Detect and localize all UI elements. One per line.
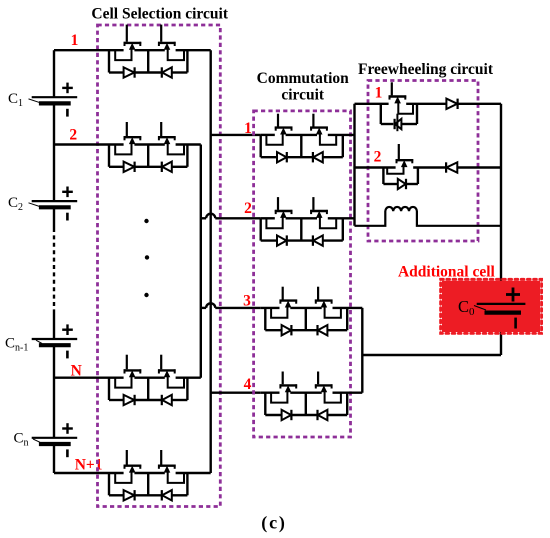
- label Cn-1: [5, 336, 42, 354]
- wire commutation-freewheeling bus: [353, 104, 355, 226]
- svg-text:4: 4: [244, 376, 252, 393]
- wire left battery bus (dashed section): [53, 228, 55, 312]
- node N label: [71, 363, 82, 380]
- title Freewheeling circuit: [358, 61, 494, 78]
- MOSFET pair K3: [261, 287, 363, 336]
- commutation node 4 label: [244, 376, 252, 393]
- caption (c): [261, 513, 286, 534]
- wire commutation node 3 feed (hop over bus A): [201, 303, 261, 308]
- title Commutation: [257, 70, 350, 87]
- cell selection boundary box: [98, 25, 221, 507]
- MOSFET pair K1: [261, 114, 355, 163]
- wire commutation node 2 feed (hop over bus A): [201, 214, 261, 219]
- battery Cn: [32, 423, 77, 457]
- battery Cn-1: [32, 324, 77, 358]
- label Cn: [14, 431, 41, 449]
- additional cell box: [441, 279, 542, 333]
- MOSFET pair SN+1 (node N+1): [54, 450, 211, 501]
- wire left battery bus (bottom section): [53, 312, 55, 473]
- wire commutation node 1 feed: [211, 134, 261, 136]
- svg-text:Freewheeling circuit: Freewheeling circuit: [358, 61, 494, 78]
- battery C2: [32, 187, 77, 221]
- label C1: [8, 91, 40, 109]
- commutation boundary box: [254, 111, 351, 437]
- wire commutation node 4 feed: [211, 392, 261, 394]
- svg-text:1: 1: [244, 120, 252, 137]
- svg-text:3: 3: [243, 293, 251, 310]
- wire selection bus B (even rail): [200, 145, 202, 378]
- MOSFET pair K2: [261, 197, 355, 246]
- title Cell Selection circuit: [91, 5, 228, 22]
- node N+1 label: [75, 457, 103, 474]
- freewheeling MOSFET Q1 with body diode D1 and series diode: [355, 82, 502, 131]
- wire right bus (top): [500, 104, 502, 305]
- MOSFET pair SN (node N): [54, 355, 201, 406]
- label C2: [8, 195, 40, 213]
- label Additional cell: [398, 263, 496, 280]
- label C0: [458, 297, 486, 318]
- wire bottom return: [362, 354, 501, 356]
- commutation node 1 label: [244, 120, 252, 137]
- wire commutation output bus B: [361, 308, 363, 393]
- svg-text:Additional cell: Additional cell: [398, 263, 496, 280]
- freewheeling node 2 label: [374, 149, 382, 166]
- MOSFET pair K4: [261, 372, 363, 421]
- MOSFET pair S1 (node 1): [54, 25, 211, 78]
- svg-text:Cell Selection circuit: Cell Selection circuit: [91, 5, 228, 22]
- commutation node 2 label: [244, 200, 252, 217]
- battery C0: [477, 288, 526, 329]
- commutation node 3 label: [243, 293, 251, 310]
- svg-text:circuit: circuit: [281, 87, 325, 104]
- svg-text:Commutation: Commutation: [257, 70, 350, 87]
- wire selection bus A (odd rail): [209, 50, 211, 473]
- inductor L1: [355, 207, 502, 226]
- node 1 label: [71, 32, 79, 49]
- ellipsis dots: [144, 219, 149, 297]
- svg-text:2: 2: [374, 149, 382, 166]
- node 2 label: [69, 127, 77, 144]
- wire left battery bus (top section): [53, 50, 55, 228]
- wire right bus (bottom): [500, 313, 502, 355]
- freewheeling MOSFET Q2 with body diode D2 and series diode: [355, 144, 502, 189]
- battery C1: [32, 83, 77, 117]
- freewheeling node 1 label: [375, 85, 383, 102]
- freewheeling boundary box: [368, 81, 478, 242]
- MOSFET pair S2 (node 2): [54, 122, 201, 172]
- title circuit: [281, 87, 325, 104]
- svg-text:2: 2: [244, 200, 252, 217]
- svg-text:2: 2: [69, 127, 77, 144]
- svg-text:1: 1: [71, 32, 79, 49]
- svg-text:1: 1: [375, 85, 383, 102]
- svg-text:(c): (c): [261, 513, 286, 534]
